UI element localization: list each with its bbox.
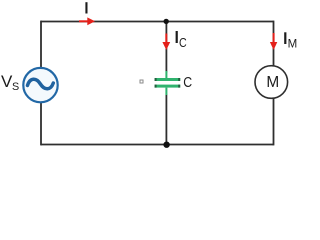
wire top bbox=[41, 21, 274, 23]
wire left vertical (source top) bbox=[40, 21, 42, 68]
motor M bbox=[255, 66, 288, 99]
capacitor C bbox=[155, 71, 181, 95]
wire left vertical (source bottom) bbox=[40, 102, 42, 145]
current arrow I (top wire) bbox=[79, 17, 95, 25]
label VS bbox=[1, 72, 19, 93]
svg-text:C: C bbox=[183, 75, 192, 91]
current arrow IC bbox=[162, 34, 170, 51]
current arrow IM bbox=[270, 33, 277, 50]
stray square mark left of capacitor bbox=[140, 80, 143, 83]
label IC bbox=[176, 31, 187, 50]
wire middle vertical (below capacitor) bbox=[165, 95, 167, 145]
svg-text:M: M bbox=[266, 74, 279, 91]
wire middle vertical (above capacitor) bbox=[165, 22, 167, 73]
label IM bbox=[284, 32, 297, 50]
svg-text:S: S bbox=[12, 81, 19, 93]
node junction top bbox=[164, 19, 169, 24]
voltage source VS bbox=[23, 68, 57, 102]
svg-text:C: C bbox=[179, 35, 187, 50]
label I bbox=[85, 2, 87, 13]
wire right vertical (motor bottom) bbox=[273, 98, 275, 145]
svg-text:M: M bbox=[288, 37, 298, 51]
wire right vertical (motor top) bbox=[273, 21, 275, 66]
wire bottom bbox=[41, 144, 274, 146]
node junction bottom bbox=[163, 142, 169, 148]
